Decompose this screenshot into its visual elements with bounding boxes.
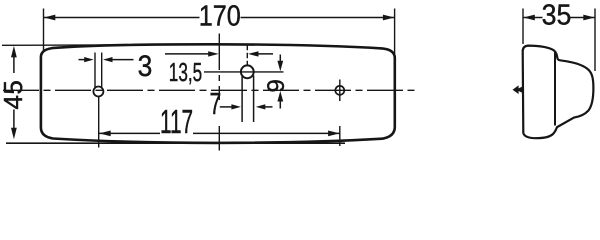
central hole circle: [241, 65, 254, 78]
left hole circle: [93, 87, 103, 97]
dimension 3: [79, 59, 88, 61]
central slot: [241, 77, 243, 123]
dimension 35 line: [523, 17, 542, 19]
side view base right edge: [554, 53, 556, 126]
central hole centerline (dashed, above hole): [246, 45, 248, 66]
extension line 170 right: [394, 9, 396, 57]
svg-text:117: 117: [160, 103, 193, 140]
extension line 35 left: [522, 9, 524, 45]
dimension 13,5: [165, 53, 210, 55]
svg-text:35: 35: [542, 0, 572, 31]
top extension line: [2, 44, 112, 46]
svg-text:3: 3: [138, 48, 153, 82]
extension line left hole (117): [98, 97, 100, 148]
svg-text:45: 45: [0, 80, 28, 110]
lamp vertical centerline: [218, 34, 220, 71]
side view body: [523, 46, 594, 139]
svg-text:170: 170: [199, 0, 241, 32]
dimension 9: [279, 55, 281, 63]
extension line 170 left: [43, 9, 45, 53]
extension line 35 right: [594, 9, 596, 72]
lamp body outline (front view): [41, 44, 395, 143]
dimension 7: [220, 106, 233, 108]
svg-text:7: 7: [210, 86, 222, 121]
right hole circle: [335, 86, 344, 95]
dimension 117 line: [99, 132, 160, 134]
mounting screw: [513, 85, 523, 94]
hole offset line y=72: [204, 71, 284, 73]
bottom extension line: [6, 142, 345, 144]
svg-text:13,5: 13,5: [169, 57, 202, 87]
extension line right hole (117): [339, 80, 341, 102]
main horizontal centerline: [3, 89, 416, 91]
dimension 170 line: [44, 17, 200, 19]
svg-text:9: 9: [263, 79, 290, 92]
left mounting slot: [94, 53, 96, 88]
dimension 45: [13, 56, 15, 73]
